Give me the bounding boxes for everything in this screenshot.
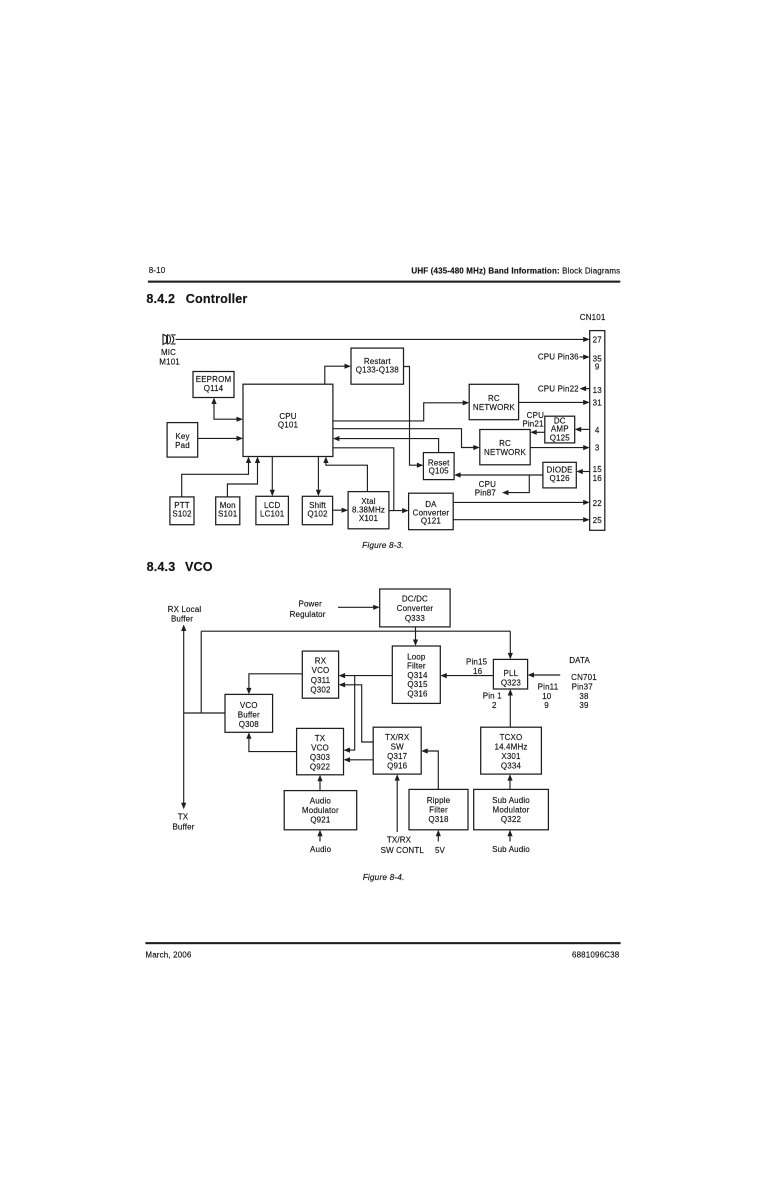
- svg-text:38: 38: [579, 692, 589, 701]
- svg-text:CPU: CPU: [527, 411, 544, 420]
- svg-text:CN701: CN701: [571, 673, 597, 682]
- svg-text:Ripple: Ripple: [427, 796, 451, 805]
- svg-text:TX: TX: [178, 813, 189, 822]
- svg-text:3: 3: [595, 443, 600, 452]
- svg-text:March, 2006: March, 2006: [145, 950, 192, 959]
- svg-text:Q317: Q317: [387, 752, 408, 761]
- svg-text:RC: RC: [499, 439, 511, 448]
- svg-text:Audio: Audio: [310, 845, 332, 854]
- svg-text:Q921: Q921: [310, 816, 331, 825]
- svg-text:CPU Pin36: CPU Pin36: [538, 353, 579, 362]
- wire Key Pad to CPU: [198, 436, 243, 441]
- block CPU Q101: [243, 384, 333, 456]
- wire Reset to CPU: [333, 436, 439, 453]
- block Key Pad: [167, 423, 198, 458]
- block EEPROM Q114: [193, 372, 234, 398]
- svg-text:13: 13: [593, 386, 603, 395]
- block RC NETWORK 2: [480, 430, 530, 465]
- wire DC/DC to Loop Filter: [413, 627, 418, 646]
- block TCXO 14.4MHz X301 Q334: [481, 727, 542, 774]
- block Restart Q133-Q138: [351, 348, 404, 384]
- block Mon S101: [216, 497, 240, 525]
- svg-text:SW CONTL: SW CONTL: [381, 846, 425, 855]
- wire RC NETWORK 2 to pin 3: [530, 445, 590, 450]
- wire Ripple Filter to TX/RX SW: [421, 748, 438, 789]
- wire pin 15 to DIODE: [576, 469, 589, 474]
- svg-text:M101: M101: [159, 357, 180, 366]
- block RC NETWORK 1: [469, 384, 518, 419]
- wire TX VCO to VCO Buffer: [246, 732, 296, 751]
- microphone M101 symbol: [163, 334, 176, 344]
- block Ripple Filter Q318: [409, 789, 468, 829]
- svg-text:Pin11: Pin11: [538, 683, 559, 692]
- svg-text:Q102: Q102: [307, 509, 328, 518]
- svg-text:Q333: Q333: [405, 614, 426, 623]
- svg-text:16: 16: [473, 667, 483, 676]
- svg-text:14.4MHz: 14.4MHz: [494, 743, 527, 752]
- wire Loop Filter to RX VCO: [339, 673, 393, 678]
- svg-text:Q126: Q126: [550, 474, 571, 483]
- svg-text:Loop: Loop: [407, 652, 426, 661]
- svg-text:Sub Audio: Sub Audio: [492, 845, 530, 854]
- svg-text:Pin21: Pin21: [522, 420, 544, 429]
- svg-text:VCO: VCO: [185, 560, 213, 574]
- svg-text:5V: 5V: [435, 846, 446, 855]
- svg-text:Figure 8-4.: Figure 8-4.: [363, 872, 405, 882]
- svg-text:Q916: Q916: [387, 761, 408, 770]
- svg-text:TX/RX: TX/RX: [387, 836, 412, 845]
- svg-text:Pad: Pad: [175, 441, 190, 450]
- svg-text:NETWORK: NETWORK: [473, 403, 515, 412]
- svg-text:Pin87: Pin87: [475, 488, 497, 497]
- svg-text:TCXO: TCXO: [500, 733, 523, 742]
- block LCD LC101: [256, 496, 289, 524]
- svg-text:39: 39: [579, 701, 589, 710]
- wire Audio input: [317, 830, 322, 842]
- wire TX/RX SW to RX VCO: [339, 682, 374, 742]
- block Sub Audio Modulator Q322: [474, 789, 549, 829]
- svg-text:Audio: Audio: [310, 796, 332, 805]
- wire Xtal to DA junction: [389, 510, 394, 512]
- svg-text:Buffer: Buffer: [171, 615, 193, 624]
- svg-text:Q105: Q105: [429, 467, 450, 476]
- svg-text:Q114: Q114: [204, 384, 224, 393]
- svg-text:Buffer: Buffer: [238, 711, 260, 720]
- wire DA Converter to pin 25: [453, 517, 590, 522]
- wire pin 13 to CPU Pin22: [580, 386, 590, 391]
- svg-text:EEPROM: EEPROM: [196, 375, 232, 384]
- wire CPU to RC NETWORK 2: [333, 429, 480, 450]
- wire bus to VCO Buffer: [184, 631, 225, 713]
- svg-text:Q302: Q302: [310, 686, 331, 695]
- block TX VCO Q303 Q922: [297, 728, 344, 774]
- wire TCXO to PLL: [508, 689, 513, 727]
- svg-text:16: 16: [593, 474, 603, 483]
- svg-text:Regulator: Regulator: [290, 610, 326, 619]
- block Reset Q105: [423, 453, 454, 480]
- svg-text:RC: RC: [488, 394, 500, 403]
- wire Restart to Reset: [404, 367, 424, 468]
- wire bus to PLL: [508, 631, 513, 659]
- svg-text:Q315: Q315: [407, 680, 428, 689]
- block Audio Modulator Q921: [284, 791, 357, 830]
- svg-text:CN101: CN101: [580, 313, 606, 322]
- svg-text:VCO: VCO: [240, 701, 258, 710]
- svg-text:Modulator: Modulator: [493, 806, 530, 815]
- wire CPU to Shift: [316, 457, 321, 497]
- wire PTT to CPU: [182, 457, 251, 497]
- wire RC NETWORK 1 to pin 31: [519, 400, 590, 405]
- block RX VCO Q311 Q302: [302, 651, 338, 698]
- svg-text:MIC: MIC: [161, 348, 176, 357]
- svg-text:Q314: Q314: [407, 671, 428, 680]
- svg-text:Figure 8-3.: Figure 8-3.: [362, 540, 404, 550]
- wire RX Local Buffer / TX Buffer line: [181, 625, 186, 810]
- wire TX/RX SW CONTL input: [395, 774, 400, 832]
- svg-text:RX: RX: [315, 657, 327, 666]
- svg-text:4: 4: [595, 426, 600, 435]
- svg-text:Key: Key: [175, 432, 189, 441]
- svg-text:8.4.3: 8.4.3: [147, 560, 176, 574]
- header rule: [148, 281, 620, 283]
- svg-text:Q316: Q316: [407, 689, 428, 698]
- wire Xtal to CPU: [323, 457, 367, 492]
- wire CPU to Restart: [325, 364, 351, 385]
- svg-text:Q311: Q311: [311, 676, 331, 685]
- svg-text:RX Local: RX Local: [168, 605, 202, 614]
- svg-text:Converter: Converter: [397, 604, 434, 613]
- svg-text:Q323: Q323: [501, 678, 522, 687]
- svg-text:CPU Pin22: CPU Pin22: [538, 385, 579, 394]
- svg-text:9: 9: [595, 362, 600, 371]
- wire MIC to CN101 pin 27: [176, 337, 590, 342]
- wire 5V input: [436, 830, 441, 842]
- svg-text:Q922: Q922: [310, 763, 331, 772]
- svg-text:VCO: VCO: [312, 666, 330, 675]
- svg-text:VCO: VCO: [311, 743, 329, 752]
- svg-text:10: 10: [542, 692, 552, 701]
- wire Sub Audio input: [507, 830, 512, 842]
- block DIODE Q126: [543, 462, 576, 488]
- wire RX VCO to VCO Buffer: [246, 674, 302, 695]
- svg-text:S102: S102: [172, 509, 192, 518]
- wire Loop Filter branch to TX VCO: [344, 676, 355, 753]
- wire supply bus horizontal: [201, 630, 510, 632]
- wire DC AMP to RC NETWORK 2: [530, 430, 545, 435]
- block DA Converter Q121: [409, 493, 454, 530]
- wire Sub Audio Modulator to TCXO: [507, 774, 512, 789]
- wire EEPROM to CPU bidirectional: [211, 398, 243, 422]
- svg-text:Q318: Q318: [428, 815, 449, 824]
- svg-text:Q121: Q121: [421, 517, 442, 526]
- block PLL Q323: [493, 659, 527, 689]
- wire CPU to LCD: [270, 457, 275, 497]
- wire CPU Pin36 to pin 35: [580, 354, 590, 359]
- block Xtal 8.38MHz X101: [348, 492, 389, 529]
- svg-text:8.4.2: 8.4.2: [146, 292, 175, 306]
- wire branch to CPU Pin87: [502, 475, 529, 495]
- wire pin 4 to DC AMP: [575, 427, 590, 432]
- svg-text:Q125: Q125: [550, 433, 571, 442]
- svg-text:NETWORK: NETWORK: [484, 448, 526, 457]
- svg-text:27: 27: [593, 335, 603, 344]
- svg-text:Power: Power: [298, 600, 322, 609]
- svg-text:Pin15: Pin15: [466, 658, 488, 667]
- wire Power Regulator to DC/DC: [338, 605, 380, 610]
- svg-text:Sub Audio: Sub Audio: [492, 796, 530, 805]
- wire CPU to DA Converter: [333, 448, 409, 513]
- svg-text:X301: X301: [501, 752, 521, 761]
- svg-text:Q133-Q138: Q133-Q138: [356, 365, 400, 374]
- svg-text:CPU: CPU: [279, 412, 296, 421]
- wire PLL to Loop Filter: [440, 673, 493, 678]
- wire Audio Modulator to TX VCO: [317, 775, 322, 791]
- block PTT S102: [170, 497, 194, 525]
- footer rule: [145, 942, 620, 944]
- svg-text:AMP: AMP: [551, 425, 569, 434]
- svg-text:Pin37: Pin37: [572, 683, 594, 692]
- svg-text:Q334: Q334: [501, 761, 522, 770]
- svg-text:Q303: Q303: [310, 753, 331, 762]
- svg-text:9: 9: [544, 701, 549, 710]
- wire TX/RX SW to TX VCO: [344, 757, 374, 762]
- svg-text:TX: TX: [315, 734, 326, 743]
- svg-text:SW: SW: [391, 743, 404, 752]
- svg-text:Filter: Filter: [429, 806, 448, 815]
- block DC AMP Q125: [545, 416, 575, 443]
- block TX/RX SW Q317 Q916: [373, 727, 421, 774]
- svg-text:8-10: 8-10: [149, 266, 166, 275]
- svg-text:Buffer: Buffer: [172, 822, 194, 831]
- svg-text:Pin 1: Pin 1: [483, 692, 502, 701]
- svg-text:Controller: Controller: [186, 292, 248, 306]
- block DC/DC Converter Q333: [380, 589, 450, 627]
- svg-text:Modulator: Modulator: [302, 806, 339, 815]
- wire Mon to CPU: [227, 457, 260, 497]
- svg-text:15: 15: [593, 465, 603, 474]
- svg-text:25: 25: [593, 516, 603, 525]
- svg-text:22: 22: [593, 499, 603, 508]
- wire CPU to RC NETWORK 1: [333, 400, 469, 421]
- wire Shift to Xtal: [333, 508, 349, 513]
- svg-text:2: 2: [492, 701, 497, 710]
- svg-text:Q101: Q101: [278, 421, 299, 430]
- svg-text:Q308: Q308: [239, 720, 260, 729]
- block Loop Filter Q314 Q315 Q316: [392, 646, 440, 703]
- svg-text:Q322: Q322: [501, 815, 522, 824]
- svg-text:S101: S101: [218, 509, 238, 518]
- wire DA Converter to pin 22: [453, 500, 590, 505]
- block Shift Q102: [302, 496, 332, 524]
- svg-text:X101: X101: [359, 514, 379, 523]
- block VCO Buffer Q308: [225, 694, 273, 732]
- svg-text:DC/DC: DC/DC: [402, 595, 428, 604]
- svg-text:Filter: Filter: [407, 662, 426, 671]
- svg-text:PLL: PLL: [504, 669, 519, 678]
- svg-text:TX/RX: TX/RX: [385, 733, 410, 742]
- svg-text:6881096C38: 6881096C38: [572, 950, 620, 959]
- svg-text:31: 31: [593, 398, 603, 407]
- wire DATA to PLL: [528, 672, 561, 677]
- connector CN101: [590, 331, 605, 531]
- svg-text:LC101: LC101: [260, 509, 285, 518]
- svg-text:UHF (435-480 MHz) Band Informa: UHF (435-480 MHz) Band Information: Bloc…: [411, 266, 620, 275]
- wire DIODE to Reset: [454, 472, 543, 477]
- svg-text:DATA: DATA: [569, 656, 590, 665]
